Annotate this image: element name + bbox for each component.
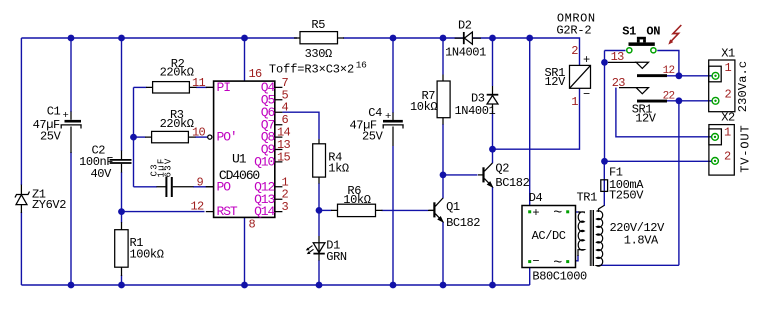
svg-text:230Va.c: 230Va.c xyxy=(736,61,750,112)
svg-text:Q14: Q14 xyxy=(254,204,275,219)
svg-text:S1: S1 xyxy=(622,25,636,39)
svg-text:2: 2 xyxy=(571,44,578,58)
svg-text:3: 3 xyxy=(282,200,289,214)
svg-text:B80C1000: B80C1000 xyxy=(532,270,587,284)
svg-text:D4: D4 xyxy=(529,191,543,205)
svg-text:2: 2 xyxy=(724,150,731,164)
svg-text:23: 23 xyxy=(612,76,626,90)
svg-text:PO': PO' xyxy=(217,130,237,145)
svg-text:13: 13 xyxy=(611,50,625,64)
svg-text:TR1: TR1 xyxy=(577,190,598,204)
svg-text:12: 12 xyxy=(663,65,675,77)
svg-text:11: 11 xyxy=(192,76,206,90)
svg-text:16: 16 xyxy=(249,67,263,81)
svg-text:D2: D2 xyxy=(458,18,472,32)
svg-text:+: + xyxy=(63,110,69,122)
svg-text:+: + xyxy=(385,111,391,123)
svg-text:1N4001: 1N4001 xyxy=(445,46,486,60)
svg-text:100kΩ: 100kΩ xyxy=(130,248,164,262)
svg-text:+: + xyxy=(532,206,539,220)
svg-text:15: 15 xyxy=(277,150,291,164)
svg-text:X1: X1 xyxy=(721,46,735,60)
svg-text:10kΩ: 10kΩ xyxy=(343,193,370,207)
svg-text:Toff=R3×C3×2: Toff=R3×C3×2 xyxy=(269,62,354,76)
svg-text:~: ~ xyxy=(553,204,562,221)
svg-text:TV-OUT: TV-OUT xyxy=(738,124,752,172)
svg-text:40V: 40V xyxy=(91,167,113,181)
svg-text:12V: 12V xyxy=(635,112,657,126)
svg-text:ZY6V2: ZY6V2 xyxy=(32,198,66,212)
svg-text:GRN: GRN xyxy=(326,250,347,264)
svg-text:BC182: BC182 xyxy=(446,216,480,230)
svg-text:PO: PO xyxy=(217,179,232,194)
svg-text:RST: RST xyxy=(217,204,238,219)
svg-text:220kΩ: 220kΩ xyxy=(160,117,194,131)
svg-text:1: 1 xyxy=(571,95,578,109)
svg-text:Q2: Q2 xyxy=(495,161,509,175)
svg-text:25V: 25V xyxy=(362,130,384,144)
svg-text:T250V: T250V xyxy=(609,189,644,203)
svg-text:220kΩ: 220kΩ xyxy=(160,65,194,79)
svg-text:8: 8 xyxy=(249,218,256,232)
svg-text:2: 2 xyxy=(725,87,732,101)
svg-text:10: 10 xyxy=(192,126,206,140)
svg-text:1: 1 xyxy=(724,125,731,139)
svg-text:−: − xyxy=(532,255,539,269)
svg-text:Q10: Q10 xyxy=(254,155,274,170)
svg-text:16: 16 xyxy=(356,60,367,71)
svg-text:G2R-2: G2R-2 xyxy=(556,24,591,38)
svg-text:U1: U1 xyxy=(232,152,247,167)
svg-text:AC/DC: AC/DC xyxy=(532,229,566,243)
svg-text:12V: 12V xyxy=(545,75,567,89)
svg-text:10kΩ: 10kΩ xyxy=(410,100,437,114)
svg-text:1kΩ: 1kΩ xyxy=(328,162,349,176)
svg-text:X2: X2 xyxy=(721,111,735,125)
svg-text:PI: PI xyxy=(217,80,231,95)
svg-text:ON: ON xyxy=(646,25,660,39)
svg-text:63V: 63V xyxy=(164,157,174,177)
svg-text:R5: R5 xyxy=(311,18,325,32)
svg-text:9: 9 xyxy=(196,175,203,189)
svg-text:330Ω: 330Ω xyxy=(305,47,332,61)
svg-text:1: 1 xyxy=(725,61,732,75)
svg-text:BC182: BC182 xyxy=(495,176,529,190)
svg-text:12: 12 xyxy=(190,199,204,213)
svg-text:22: 22 xyxy=(663,90,675,102)
svg-text:C1: C1 xyxy=(47,105,61,119)
svg-text:1N4001: 1N4001 xyxy=(455,104,496,118)
svg-text:+: + xyxy=(583,53,590,67)
svg-text:Q1: Q1 xyxy=(446,200,460,214)
svg-text:25V: 25V xyxy=(40,130,62,144)
svg-text:−: − xyxy=(583,88,590,102)
svg-text:1.8VA: 1.8VA xyxy=(624,234,659,248)
